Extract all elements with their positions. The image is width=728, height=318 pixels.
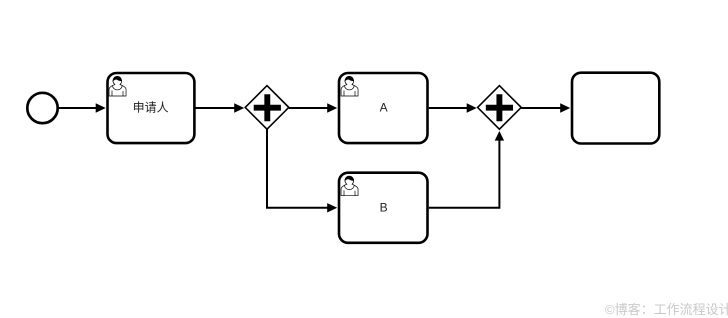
watermark bottom right	[605, 299, 728, 318]
wire: gateway 1 to task A	[289, 103, 337, 112]
task A box	[339, 73, 428, 143]
wire: gateway 2 to end box	[521, 103, 570, 112]
svg-text:A: A	[380, 101, 388, 115]
task B box	[339, 173, 428, 243]
end task box (empty)	[572, 73, 659, 144]
user icon task A	[341, 76, 358, 96]
svg-text:申请人: 申请人	[133, 101, 169, 115]
parallel gateway 1 diamond	[245, 86, 289, 130]
parallel gateway 1 plus	[254, 94, 281, 121]
task 申请人 box	[108, 73, 195, 143]
wire: task B right then up to gateway 2	[429, 131, 504, 208]
wire: start event to task 申请人	[59, 103, 106, 112]
parallel gateway 2 diamond	[478, 86, 522, 130]
user icon task 申请人	[109, 76, 126, 96]
wire: task 申请人 to parallel gateway 1	[195, 103, 244, 112]
user icon task B	[341, 176, 358, 196]
wire: gateway 1 down to task B	[267, 129, 337, 212]
svg-text:B: B	[380, 201, 388, 215]
wire: task A to parallel gateway 2	[429, 103, 477, 112]
start event circle	[27, 93, 57, 123]
parallel gateway 2 plus	[486, 94, 513, 121]
